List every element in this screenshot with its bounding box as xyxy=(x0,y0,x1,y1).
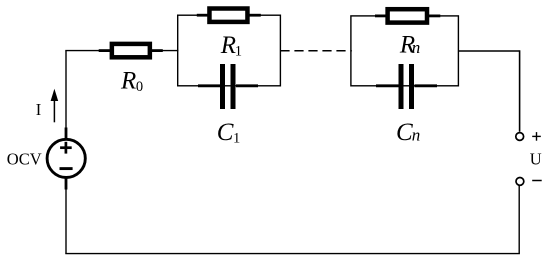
svg-text:1: 1 xyxy=(233,130,240,146)
svg-text:U: U xyxy=(530,150,542,169)
svg-text:OCV: OCV xyxy=(7,149,42,168)
label OCV xyxy=(7,149,42,168)
label I xyxy=(36,100,42,119)
wire: dashed link between RC loop 1 and RC loop n xyxy=(280,50,351,52)
capacitor Cn xyxy=(376,64,437,109)
wire: output horizontal run to positive terminal branch xyxy=(458,50,519,52)
label + at positive terminal xyxy=(532,132,541,141)
resistor Rn xyxy=(375,9,440,22)
svg-text:n: n xyxy=(412,38,421,57)
resistor R1 xyxy=(197,9,261,22)
svg-text:n: n xyxy=(412,126,421,145)
wire: top-left horizontal run through R0 xyxy=(65,50,178,52)
wire: right vertical down to positive terminal xyxy=(519,50,521,131)
label - at negative terminal xyxy=(532,180,542,182)
voltage source OCV xyxy=(47,128,85,190)
terminal: negative output node xyxy=(516,178,524,186)
node B: RC loop n rectangle xyxy=(351,16,459,86)
wire: left vertical from OCV source down to bottom rail xyxy=(65,179,67,254)
label Cn xyxy=(396,119,420,146)
label U output voltage xyxy=(530,150,542,169)
terminal: positive output node xyxy=(516,133,524,141)
svg-text:I: I xyxy=(36,100,42,119)
label Rn xyxy=(399,32,420,59)
wire: left vertical from top corner down to OCV source xyxy=(65,51,67,138)
svg-text:R: R xyxy=(120,67,136,94)
current arrow I xyxy=(51,89,59,123)
node A: RC loop 1 rectangle xyxy=(178,15,281,86)
svg-text:1: 1 xyxy=(235,44,242,60)
resistor R0 xyxy=(99,44,163,57)
wire: bottom return rail xyxy=(65,253,520,255)
svg-text:R: R xyxy=(220,32,236,59)
wire: right vertical from negative terminal to bottom rail xyxy=(518,186,520,254)
label R0 xyxy=(120,67,143,95)
label R1 xyxy=(220,32,242,60)
svg-text:C: C xyxy=(396,119,413,146)
svg-text:0: 0 xyxy=(136,79,143,95)
label C1 xyxy=(217,119,240,147)
svg-text:C: C xyxy=(217,119,234,146)
capacitor C1 xyxy=(198,64,258,109)
